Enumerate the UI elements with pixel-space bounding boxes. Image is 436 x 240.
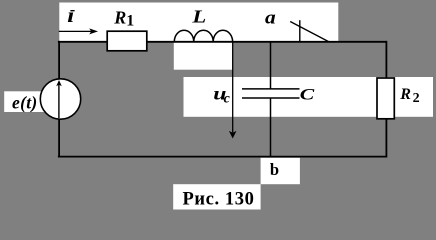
label box middle [184, 77, 434, 117]
svg-text:R: R [399, 86, 411, 103]
svg-text:Рис. 130: Рис. 130 [183, 190, 255, 210]
label box caption [173, 184, 260, 209]
svg-text:b: b [270, 160, 279, 179]
svg-text:1: 1 [126, 13, 134, 30]
wire top [58, 41, 387, 43]
resistor R2 [377, 78, 394, 119]
voltage arrow uc [229, 42, 237, 139]
label box top [59, 3, 338, 42]
wire left [58, 41, 60, 158]
label box e(t) [4, 91, 44, 112]
label R2 [399, 86, 419, 106]
label box b [261, 158, 300, 184]
svg-text:ı: ı [67, 4, 74, 28]
svg-text:C: C [300, 86, 315, 104]
svg-text:R: R [113, 7, 126, 27]
current arrow i [59, 28, 98, 34]
wire capacitor branch lower [270, 98, 272, 157]
svg-text:a: a [265, 7, 276, 28]
voltage label uc [213, 83, 230, 106]
label box inductor [174, 41, 232, 70]
svg-text:c: c [224, 91, 231, 106]
resistor R1 [107, 31, 147, 51]
svg-text:e(t): e(t) [12, 92, 38, 112]
wire bottom [58, 156, 387, 158]
inductor L [174, 30, 232, 42]
wire right [385, 41, 387, 158]
capacitor C plates [242, 89, 300, 98]
wire capacitor branch upper [270, 42, 272, 89]
switch at node a [290, 20, 329, 42]
label R1 [113, 7, 134, 29]
svg-text:L: L [191, 8, 206, 27]
current label i [67, 4, 74, 28]
source e(t) [40, 79, 80, 119]
svg-text:2: 2 [413, 91, 420, 106]
